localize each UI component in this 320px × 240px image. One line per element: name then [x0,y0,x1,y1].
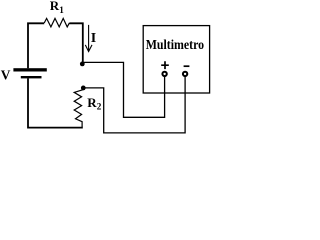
node A (junction of R1 branch) [80,62,85,67]
wire: node B to - terminal [83,77,185,133]
svg-text:R: R [87,95,97,110]
label + [161,61,169,69]
wire: node A to + terminal [82,62,164,117]
svg-text:V: V [1,67,11,82]
svg-text:Multimetro: Multimetro [146,37,205,52]
multimeter box U1 [143,26,209,93]
node B (top of R2) [81,86,86,91]
resistor R1 [44,18,69,27]
svg-text:1: 1 [59,5,64,15]
label - [184,65,190,67]
wire: main loop left + top + bottom [28,23,83,127]
resistor R2 [74,88,83,127]
terminal + ring [162,72,166,76]
svg-text:2: 2 [97,102,102,112]
battery V top plate [13,68,46,71]
terminal - ring [183,72,187,76]
current arrow I [85,25,92,52]
battery V bottom plate [21,76,42,78]
svg-text:I: I [91,31,96,46]
